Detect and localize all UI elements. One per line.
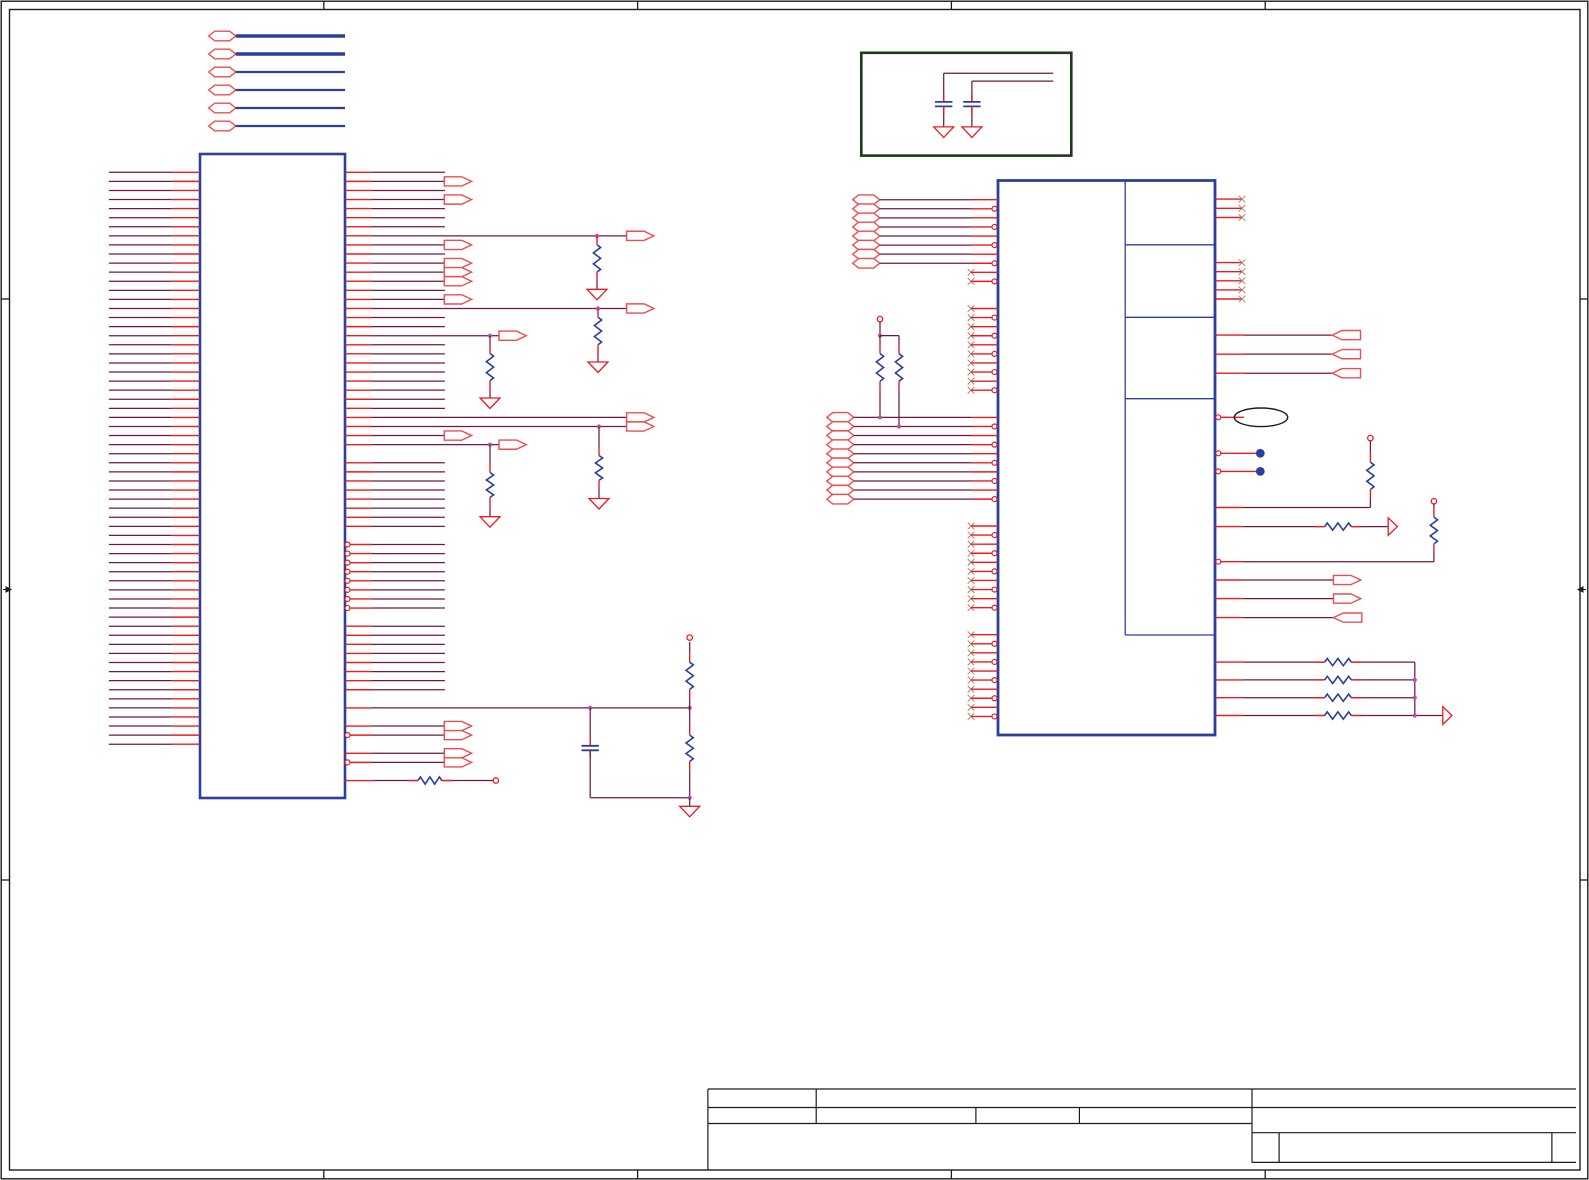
U2 left pin A4 — [992, 224, 997, 229]
U1 right pin wire r52 — [345, 643, 372, 645]
U2 right nc pin S4 — [1215, 289, 1242, 291]
capacitor C1 — [589, 739, 591, 746]
U1 right pin wire r53 — [345, 652, 372, 654]
junction r30 — [488, 443, 492, 447]
U2 nc X C6 — [968, 351, 975, 358]
U2 right pin nd2 — [1216, 469, 1221, 474]
U2 left pin E10 — [992, 605, 997, 610]
wire to tri arrow — [1351, 526, 1388, 528]
port arrow r29 — [444, 431, 471, 440]
U1 left pin 39 — [109, 516, 172, 518]
U2 nc X E2 — [968, 532, 975, 539]
U2 left pin E3 — [971, 543, 998, 545]
U1 right inverted pin r47 — [345, 596, 350, 601]
U2 left pin F3 — [971, 652, 998, 654]
U2 wire D9 — [854, 489, 971, 491]
blue dot 1 — [1256, 449, 1265, 458]
U2 left pin E8 — [992, 587, 997, 592]
resistor R-r18 — [489, 336, 491, 345]
junction r59b — [688, 706, 692, 710]
port double-arrow r65 — [444, 758, 471, 767]
U1 left pin 7 — [109, 226, 172, 228]
U2 flag A4 — [853, 222, 880, 232]
U2 left pin D2 — [992, 424, 997, 429]
U1 left pin 14 — [109, 289, 172, 291]
U1 left pin 41 — [109, 534, 172, 536]
U1 left pin 31 — [109, 444, 172, 446]
U1 left pin 20 — [109, 344, 172, 346]
terminal r59 top — [687, 635, 692, 640]
capacitor C3 — [971, 95, 973, 102]
U1 left pin 34 — [109, 471, 172, 473]
junction RP — [878, 334, 882, 338]
U1 left pin 54 — [109, 652, 172, 654]
U2 flag D6 — [827, 458, 854, 468]
bus wire B1 — [236, 34, 345, 38]
U2 nc X C4 — [968, 332, 975, 339]
resistor Rb3 — [1315, 697, 1325, 699]
U2 internal divider 2 — [1125, 316, 1215, 318]
U2 left pin E4 — [992, 551, 997, 556]
U2 left pin A1 — [971, 199, 998, 201]
port arrow r14 — [444, 295, 471, 304]
U1 left pin 19 — [109, 335, 172, 337]
U2 internal divider 4 — [1125, 634, 1215, 636]
U1 left pin 42 — [109, 543, 172, 545]
U2 flag D7 — [827, 467, 854, 477]
U2 left pin A8 — [992, 261, 997, 266]
U1 right pin wire r9 — [345, 253, 372, 255]
U2 left pin C10 — [992, 388, 997, 393]
U2 nc X E3 — [968, 541, 975, 548]
RP jog wire — [880, 335, 899, 337]
zone ticks top — [323, 1, 325, 9]
U1 left pin 23 — [109, 371, 172, 373]
U2 flag D5 — [827, 449, 854, 459]
U2 flag D8 — [827, 476, 854, 486]
U2 flag D1 — [827, 413, 854, 423]
gnd lead — [689, 798, 691, 807]
port arrow-in 1 — [1332, 331, 1360, 340]
U2 nc X C3 — [968, 323, 975, 330]
U1 left pin 1 — [109, 171, 172, 173]
U1 left pin 32 — [109, 453, 172, 455]
port arrow r18 — [499, 331, 526, 340]
U2 flag D2 — [827, 422, 854, 432]
U2 right pin nd1 — [1216, 451, 1221, 456]
U2 right nc pin S2 — [1215, 271, 1242, 273]
U2 flag A8 — [853, 258, 880, 268]
U1 left pin 47 — [109, 589, 172, 591]
port arrow-in 3 — [1332, 369, 1360, 378]
U1 pin r15 wire long — [345, 307, 372, 309]
U2 right pin in4 — [1215, 617, 1243, 619]
U2 left pin A5 — [971, 235, 998, 237]
U1 right pin wire r65 — [345, 760, 350, 765]
U2 internal divider 3 — [1125, 398, 1215, 400]
U2 wire A2 — [880, 208, 971, 210]
U2 right nc pin S3 — [1215, 280, 1242, 282]
U2 left pin F1 — [971, 634, 998, 636]
net flag F4 — [209, 85, 236, 95]
resistor Rb2 — [1315, 679, 1325, 681]
title block — [708, 1088, 1576, 1090]
ground r28 — [589, 499, 609, 510]
zone ticks right — [1580, 298, 1588, 300]
ellipse symbol — [1234, 408, 1287, 427]
U1 right pin wire r0 — [345, 171, 372, 173]
U1 left pin 8 — [109, 235, 172, 237]
U2 left pin E1 — [971, 525, 998, 527]
U2 wire D7 — [854, 471, 971, 473]
IC U2 body — [998, 181, 1215, 736]
resistor R-pullup r59 — [689, 642, 691, 653]
U2 wire D1 — [854, 416, 971, 418]
port arrow-in 4 — [1334, 613, 1362, 622]
U2 left pin E2 — [992, 533, 997, 538]
U1 left pin 56 — [109, 671, 172, 673]
U1 right pin wire r39 — [345, 525, 372, 527]
U1 left pin 46 — [109, 580, 172, 582]
U2 right pin in3 — [1215, 372, 1245, 374]
U1 right pin wire r57 — [345, 689, 372, 691]
U1 right pin wire r33 — [345, 471, 372, 473]
U2 right pin in1 — [1215, 334, 1245, 336]
U2 nc X E4 — [968, 550, 975, 557]
U2 right nc pin T3 — [1215, 217, 1242, 219]
U2 left pin F4 — [992, 659, 997, 664]
port arrow-out 1 — [1334, 575, 1361, 584]
U1 right pin wire r38 — [345, 516, 372, 518]
zone arrow right — [1578, 587, 1586, 592]
port arrow r30 — [499, 440, 526, 449]
U2 right pin w526 — [1215, 526, 1243, 528]
U2 left pin D1 — [971, 416, 998, 418]
U2 nc X E6 — [968, 568, 975, 575]
U1 right pin wire r2 — [345, 189, 372, 191]
U1 left pin 37 — [109, 498, 172, 500]
port arrow r8 — [444, 240, 471, 249]
U2 right X T2 — [1239, 205, 1246, 212]
U2 right pin ell — [1216, 415, 1221, 420]
U1 left pin 40 — [109, 525, 172, 527]
U1 pin r30 wire — [345, 444, 372, 446]
junction RP1 bottom — [878, 415, 882, 419]
U1 left pin 57 — [109, 680, 172, 682]
U1 left pin 25 — [109, 389, 172, 391]
U1 left pin 15 — [109, 298, 172, 300]
U2 right nc pin S1 — [1215, 262, 1242, 264]
cap net wire 1 — [944, 72, 1053, 74]
U2 left pin A2 — [992, 206, 997, 211]
U2 left pin E6 — [992, 569, 997, 574]
U1 right pin wire r1 — [345, 180, 372, 182]
terminal Rv2 — [1431, 499, 1436, 504]
U2 wire A3 — [880, 217, 971, 219]
U2 left pin D5 — [971, 453, 998, 455]
wire cap to rail — [589, 750, 591, 798]
U2 flag D4 — [827, 440, 854, 450]
resistor Rh1 — [1315, 526, 1325, 528]
U2 left pin D6 — [992, 460, 997, 465]
cap net wire 2 — [972, 80, 1053, 82]
U2 left pin D7 — [971, 471, 998, 473]
U2 internal column — [1124, 181, 1126, 635]
U1 right inverted pin r42 — [345, 551, 350, 556]
wire r67 to terminal — [442, 780, 493, 782]
note box (green) — [861, 53, 1071, 156]
U2 flag D9 — [827, 485, 854, 495]
net flag F3 — [209, 67, 236, 77]
U2 right X S5 — [1239, 296, 1246, 303]
U1 right pin wire r25 — [345, 398, 372, 400]
U1 right inverted pin r48 — [345, 606, 350, 611]
bus wire B3 — [236, 71, 345, 73]
U1 left pin 17 — [109, 317, 172, 319]
U1 left pin 2 — [109, 180, 172, 182]
U1 pin r59 wire long — [345, 707, 372, 709]
U1 right pin wire r24 — [345, 389, 372, 391]
U2 right pin in2 — [1215, 353, 1245, 355]
terminal RP top — [877, 316, 882, 321]
U1 left pin 48 — [109, 598, 172, 600]
U1 right pin wire r16 — [345, 317, 372, 319]
U2 nc X B1 — [968, 269, 975, 276]
junction r18 — [488, 334, 492, 338]
U1 pin r67 wire — [345, 780, 374, 782]
U1 right pin wire r17 — [345, 326, 372, 328]
U1 left pin 27 — [109, 407, 172, 409]
U2 wire D5 — [854, 453, 971, 455]
U2 right X S1 — [1239, 259, 1246, 266]
U1 right inverted pin r43 — [345, 560, 350, 565]
U1 left pin 13 — [109, 280, 172, 282]
U1 left pin 52 — [109, 634, 172, 636]
U1 left pin 12 — [109, 271, 172, 273]
U2 right X S3 — [1239, 278, 1246, 285]
port arrow r10 — [444, 258, 471, 267]
U1 left pin 10 — [109, 253, 172, 255]
U1 right pin wire r20 — [345, 353, 372, 355]
bus wire B4 — [236, 89, 345, 91]
resistor R-r15 — [597, 307, 599, 309]
U1 right pin wire r50 — [345, 625, 372, 627]
U1 left pin 44 — [109, 562, 172, 564]
U1 left pin 3 — [109, 189, 172, 191]
U2 flag A3 — [853, 213, 880, 223]
junction r28 — [597, 424, 601, 428]
U2 nc X C9 — [968, 378, 975, 385]
U2 right pin rb1 — [1215, 661, 1243, 663]
U1 left pin 53 — [109, 643, 172, 645]
port arrow r7 — [627, 231, 654, 240]
U1 left pin 49 — [109, 607, 172, 609]
cap C3 gnd lead — [971, 106, 973, 114]
U1 right pin wire r11 — [345, 271, 372, 273]
bus wire B5 — [236, 107, 345, 109]
U1 left pin 60 — [109, 707, 172, 709]
port arrow r1 — [444, 177, 471, 186]
port double-arrow r28 — [627, 422, 654, 431]
wire rb1 tail — [1351, 661, 1415, 663]
wire rb3 tail — [1351, 697, 1415, 699]
U2 left pin A3 — [971, 217, 998, 219]
U1 right pin wire r13 — [345, 289, 372, 291]
U1 right inverted pin r45 — [345, 578, 350, 583]
U1 pin r18 wire — [345, 335, 372, 337]
U1 right pin wire r4 — [345, 208, 372, 210]
U2 nc X F9 — [968, 704, 975, 711]
U2 wire A7 — [880, 253, 971, 255]
ground C3 — [962, 127, 982, 137]
U2 nc X E10 — [968, 604, 975, 611]
port double-arrow r61 — [444, 721, 471, 730]
U1 right pin wire r34 — [345, 480, 372, 482]
U1 left pin 11 — [109, 262, 172, 264]
U1 left pin 6 — [109, 217, 172, 219]
U2 left pin F5 — [971, 670, 998, 672]
U2 nc X C2 — [968, 314, 975, 321]
U1 left pin 55 — [109, 662, 172, 664]
ground r18 — [480, 398, 500, 409]
U1 left pin 26 — [109, 398, 172, 400]
U2 right nc pin S5 — [1215, 298, 1242, 300]
ground r7 — [587, 289, 607, 300]
U2 nc X F1 — [968, 631, 975, 638]
U2 wire A6 — [880, 244, 971, 246]
U1 right pin wire r37 — [345, 507, 372, 509]
U1 right pin wire r26 — [345, 407, 372, 409]
bus wire B2 — [236, 52, 345, 56]
U2 left pin F10 — [992, 714, 997, 719]
resistor Rv1 — [1369, 441, 1371, 453]
U2 left pin F8 — [992, 696, 997, 701]
U1 right pin wire r55 — [345, 671, 372, 673]
resistor RP2 — [898, 336, 900, 345]
U1 right pin wire r6 — [345, 226, 372, 228]
U1 left pin 18 — [109, 326, 172, 328]
junction r59a — [588, 706, 592, 710]
U2 left pin C7 — [971, 362, 998, 364]
U2 flag A7 — [853, 249, 880, 259]
U2 flag D3 — [827, 431, 854, 441]
bus wire B6 — [236, 125, 345, 127]
U2 nc X C10 — [968, 387, 975, 394]
U2 flag A2 — [853, 204, 880, 214]
port arrow r3 — [444, 195, 471, 204]
U2 left pin C9 — [971, 380, 998, 382]
U2 left pin C2 — [992, 315, 997, 320]
U1 right pin wire r29 — [345, 435, 372, 437]
U1 pin r7 wire long — [345, 235, 372, 237]
junction rb4 — [1413, 713, 1417, 717]
U2 nc X C1 — [968, 305, 975, 312]
U2 flag A6 — [853, 240, 880, 250]
U1 left pin 43 — [109, 553, 172, 555]
U1 pin r28 wire long — [345, 425, 372, 427]
U1 right pin wire r32 — [345, 462, 372, 464]
U2 right pin rb2 — [1215, 679, 1243, 681]
U1 left pin 24 — [109, 380, 172, 382]
port arrow-out 2 — [1334, 594, 1361, 603]
U1 right pin wire r14 — [345, 298, 372, 300]
resistor R-r7 — [596, 235, 598, 237]
U2 left pin D10 — [992, 497, 997, 502]
U2 nc X F5 — [968, 668, 975, 675]
junction r15 — [596, 306, 600, 310]
U2 left pin F7 — [971, 688, 998, 690]
U1 right pin wire r56 — [345, 680, 372, 682]
U1 left pin 59 — [109, 698, 172, 700]
U2 left pin C8 — [992, 370, 997, 375]
U2 flag D10 — [827, 494, 854, 504]
out arrow tri2 — [1443, 707, 1452, 725]
U2 internal divider 1 — [1125, 244, 1215, 246]
resistor Rb4 — [1315, 715, 1325, 717]
U2 wire A1 — [880, 199, 971, 201]
U2 right pin rb4 — [1215, 715, 1243, 717]
U1 right pin wire r19 — [345, 344, 372, 346]
U1 left pin 35 — [109, 480, 172, 482]
U1 left pin 16 — [109, 307, 172, 309]
U2 nc X C7 — [968, 360, 975, 367]
ground r30 — [480, 517, 500, 528]
port arrow r12 — [444, 277, 471, 286]
U2 left pin E5 — [971, 561, 998, 563]
U1 right pin wire r54 — [345, 662, 372, 664]
net flag F5 — [209, 103, 236, 113]
port double-arrow r62 — [444, 731, 471, 740]
U2 left pin C6 — [992, 351, 997, 356]
U1 left pin 5 — [109, 208, 172, 210]
terminal r67 — [493, 778, 498, 783]
U2 left pin B1 — [971, 271, 998, 273]
junction rb3 — [1413, 696, 1417, 700]
port arrow r11 — [444, 268, 471, 277]
junction rail — [688, 796, 692, 800]
U1 left pin 28 — [109, 416, 172, 418]
U2 left pin C1 — [971, 308, 998, 310]
U2 nc X F6 — [968, 677, 975, 684]
wire rb4 tail — [1351, 715, 1415, 717]
U2 right pin w561 — [1216, 559, 1221, 564]
U1 right pin wire r51 — [345, 634, 372, 636]
U1 right inverted pin r46 — [345, 587, 350, 592]
zone ticks bottom — [323, 1170, 325, 1179]
zone ticks left — [1, 298, 9, 300]
U2 nc X B2 — [968, 278, 975, 285]
U2 nc X E9 — [968, 595, 975, 602]
port double-arrow r64 — [444, 749, 471, 758]
resistor RP1 — [879, 336, 881, 345]
U2 right pin w507 — [1215, 507, 1243, 509]
U1 right pin wire r64 — [345, 752, 372, 754]
resistor R-r67 — [408, 780, 418, 782]
U1 right pin wire r12 — [345, 280, 372, 282]
U2 nc X F3 — [968, 650, 975, 657]
resistor R-r28 — [598, 426, 600, 446]
U1 right pin wire r10 — [345, 262, 372, 264]
U2 left pin D8 — [992, 478, 997, 483]
U2 wire D8 — [854, 480, 971, 482]
U1 left pin 38 — [109, 507, 172, 509]
U2 right nc pin T2 — [1215, 207, 1242, 209]
U2 left pin C5 — [971, 344, 998, 346]
U2 left pin B2 — [992, 279, 997, 284]
U2 left pin F2 — [992, 641, 997, 646]
U2 left pin C3 — [971, 326, 998, 328]
U2 right pin out2 — [1215, 598, 1243, 600]
